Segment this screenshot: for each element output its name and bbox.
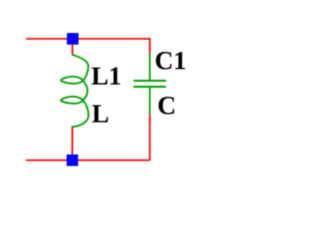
capacitor C1 top lead: [149, 54, 151, 80]
wire right vertical lower (from capacitor): [149, 114, 151, 160]
label L1: [92, 67, 121, 84]
node top junction (blue square): [67, 33, 79, 45]
capacitor C1 top plate: [134, 80, 167, 82]
label C: [159, 97, 175, 114]
inductor L1 coil: [61, 55, 89, 127]
wire right vertical upper (to capacitor): [149, 38, 151, 54]
label L: [92, 105, 108, 122]
label C1: [156, 52, 185, 69]
wire left vertical upper (square to inductor): [71, 44, 73, 56]
wire bottom horizontal: [26, 159, 150, 161]
capacitor C1 symbol: [134, 54, 167, 115]
wire top horizontal: [26, 38, 150, 40]
node bottom junction (blue square): [67, 155, 79, 167]
capacitor C1 bottom plate: [134, 86, 167, 88]
capacitor C1 bottom lead: [149, 88, 151, 115]
wire left vertical lower (inductor to square): [71, 127, 73, 156]
